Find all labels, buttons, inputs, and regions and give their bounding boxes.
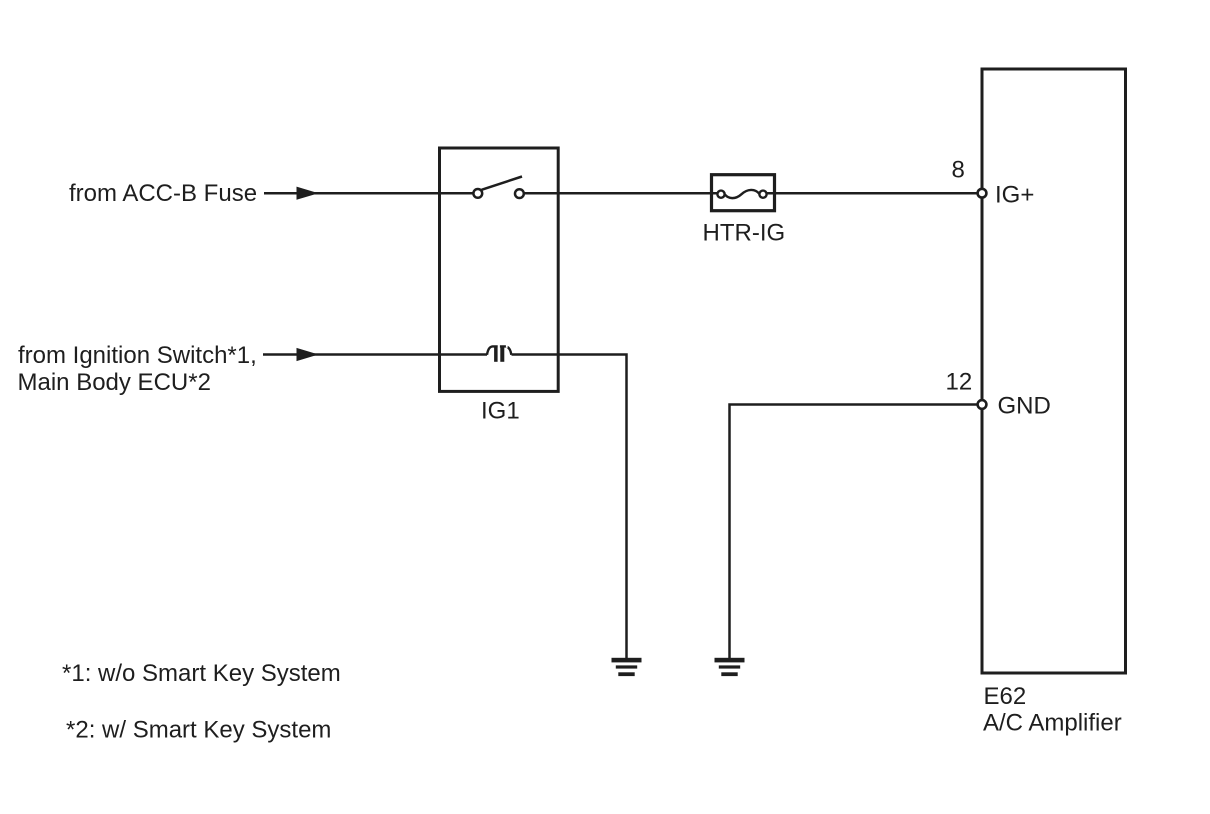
switch blade — [482, 177, 523, 190]
arrowhead on ACC-B feed wire — [297, 187, 319, 200]
wire from relay switch to HTR-IG fuse — [524, 192, 718, 195]
wire from HTR-IG fuse to connector pin 8 — [767, 192, 977, 195]
wire from Ignition Switch to relay IG1 coil — [263, 353, 487, 356]
svg-text:from ACC-B Fuse: from ACC-B Fuse — [69, 180, 257, 207]
svg-text:Main Body ECU*2: Main Body ECU*2 — [18, 369, 211, 396]
svg-text:8: 8 — [952, 157, 965, 184]
fuse HTR-IG box — [712, 175, 775, 211]
relay IG1 coil — [487, 345, 511, 362]
svg-text:IG+: IG+ — [995, 182, 1034, 209]
svg-text:E62: E62 — [984, 683, 1027, 710]
wire from pin 12 GND to ground — [730, 405, 978, 659]
wire from ACC-B Fuse into relay IG1 switch — [264, 192, 474, 195]
arrowhead on Ignition Switch feed wire — [297, 348, 319, 361]
svg-text:from Ignition Switch*1,: from Ignition Switch*1, — [18, 342, 257, 369]
relay IG1 box — [440, 148, 559, 391]
pin 12 terminal — [978, 400, 987, 409]
pin 8 terminal — [978, 189, 987, 198]
svg-text:GND: GND — [998, 393, 1051, 420]
fuse HTR-IG element — [717, 190, 766, 198]
svg-text:A/C Amplifier: A/C Amplifier — [983, 710, 1122, 737]
wire from relay coil to ground — [512, 355, 627, 659]
svg-text:IG1: IG1 — [481, 398, 520, 425]
svg-text:12: 12 — [946, 369, 973, 396]
svg-text:*2: w/ Smart Key System: *2: w/ Smart Key System — [66, 717, 331, 744]
svg-text:HTR-IG: HTR-IG — [703, 220, 786, 247]
ground (GND side) — [715, 658, 745, 676]
connector E62 box — [982, 69, 1126, 673]
ground (coil side) — [612, 658, 642, 676]
switch left contact terminal — [473, 189, 482, 198]
switch right contact terminal — [515, 189, 524, 198]
svg-text:*1: w/o Smart Key System: *1: w/o Smart Key System — [62, 660, 341, 687]
